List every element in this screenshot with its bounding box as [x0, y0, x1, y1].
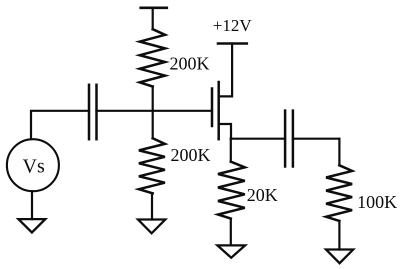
wire C1 to gate bar (node A through R1/R2 junction)	[97, 110, 213, 112]
supply rail bar (top left)	[141, 7, 167, 10]
ground (R4)	[326, 250, 353, 264]
resistor R4 100K (load)	[326, 165, 352, 221]
capacitor C1 left plate	[88, 85, 91, 139]
svg-text:+12V: +12V	[213, 16, 253, 35]
ground (Vs)	[18, 219, 45, 232]
source Vs circle	[7, 139, 59, 191]
wire R1 bottom to gate node	[152, 87, 154, 111]
wire Vs corner to capacitor C1	[31, 111, 89, 139]
transistor Q1 channel bar	[217, 82, 220, 139]
transistor Q1 drain lead	[219, 44, 232, 97]
wire Vs bottom to ground	[31, 191, 33, 219]
wire source node to capacitor C2	[231, 138, 285, 140]
ground (R2)	[138, 220, 165, 234]
svg-text:200K: 200K	[171, 145, 211, 165]
wire load corner down to R4	[338, 139, 340, 166]
+12V supply bar	[218, 42, 247, 45]
resistor R1 200K (upper bias)	[140, 29, 165, 86]
capacitor C2 right plate	[292, 111, 295, 167]
ground (R3)	[217, 245, 245, 257]
resistor R2 200K (lower bias)	[139, 138, 165, 193]
resistor R3 20K (source)	[218, 162, 245, 219]
capacitor C2 left plate	[284, 111, 287, 167]
svg-text:Vs: Vs	[23, 156, 45, 178]
wire R3 bottom to ground	[230, 219, 232, 246]
svg-text:20K: 20K	[247, 185, 278, 205]
wire rail to R1 top	[152, 8, 154, 29]
svg-text:200K: 200K	[170, 54, 210, 74]
wire R2 bottom to ground	[151, 193, 153, 219]
wire C2 to load branch	[293, 138, 340, 140]
wire R4 bottom to ground	[338, 221, 340, 250]
svg-text:100K: 100K	[357, 192, 397, 212]
wire source node down to R3	[230, 139, 232, 162]
transistor Q1 gate bar	[211, 89, 214, 127]
transistor Q1 source lead	[219, 124, 231, 139]
wire gate node down to R2	[152, 111, 154, 139]
capacitor C1 right plate	[95, 85, 98, 139]
